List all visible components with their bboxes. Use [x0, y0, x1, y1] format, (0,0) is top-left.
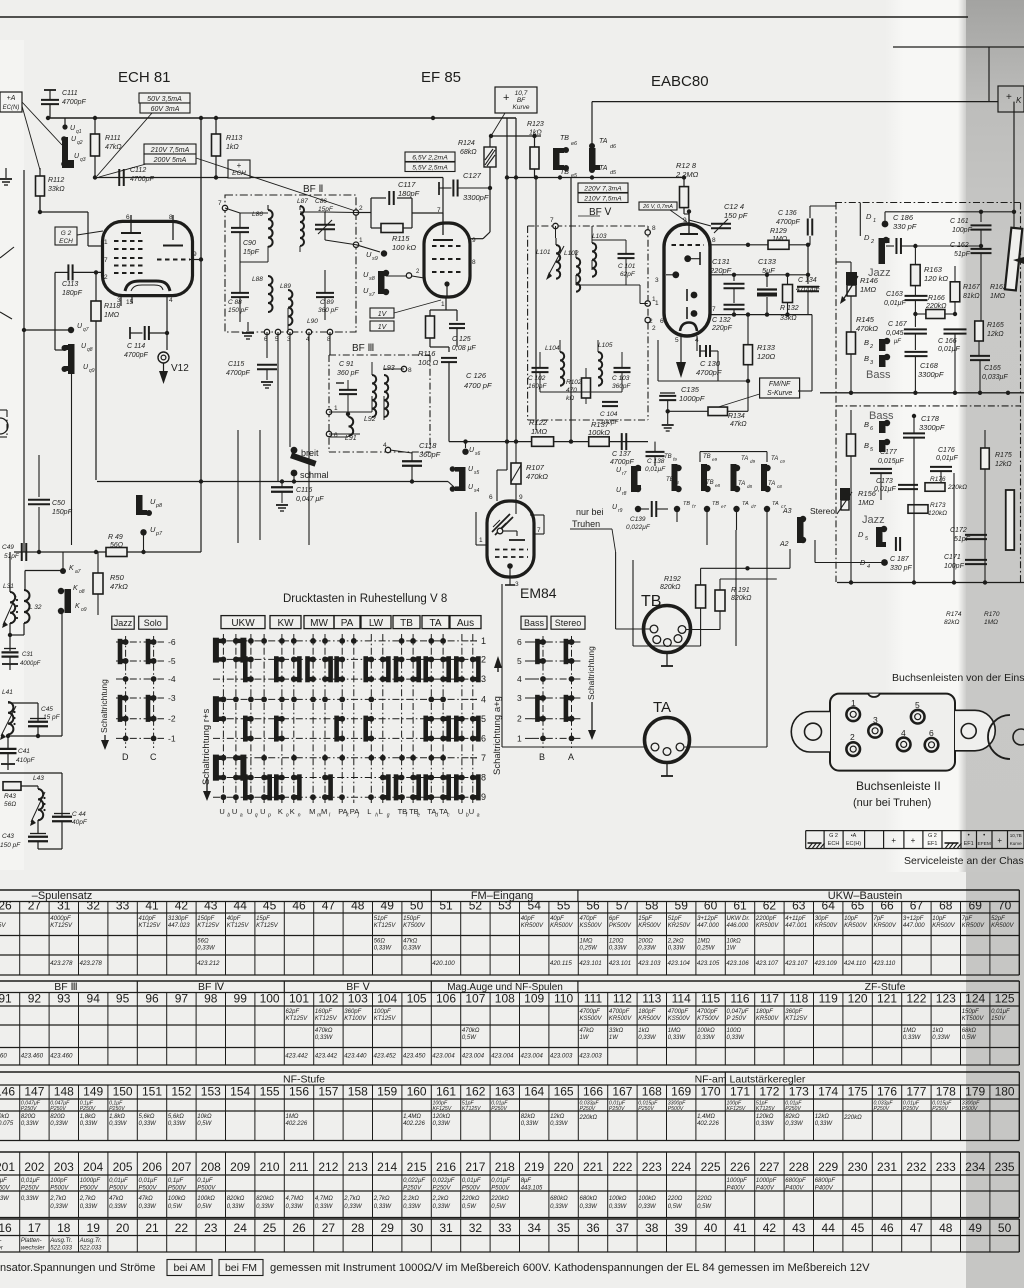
svg-text:8: 8 [652, 225, 656, 232]
wire grid line [95, 177, 228, 179]
svg-text:61: 61 [733, 899, 747, 913]
svg-text:L87: L87 [297, 198, 308, 205]
svg-text:Jazz: Jazz [114, 618, 133, 628]
svg-text:P250V: P250V [21, 1186, 40, 1192]
svg-text:TA: TA [742, 501, 749, 507]
svg-text:P250V: P250V [433, 1186, 452, 1192]
svg-text:n: n [298, 813, 301, 819]
contact TA c9 c8 [761, 464, 767, 491]
svg-text:LW: LW [369, 618, 384, 629]
svg-text:U: U [458, 807, 463, 816]
panel lower verticals [850, 456, 852, 583]
svg-text:s9: s9 [372, 256, 378, 262]
svg-text:C 134: C 134 [798, 277, 817, 284]
resistor R43 [3, 782, 21, 791]
svg-text:10,7B: 10,7B [1010, 833, 1022, 838]
svg-text:0,01μF: 0,01μF [645, 466, 666, 473]
capacitor C91 [339, 389, 357, 391]
table ZF-Spulensatz / FM-Eingang / UKW-Baustein values [0, 889, 1019, 891]
svg-text:R112: R112 [48, 177, 64, 184]
svg-text:o: o [286, 813, 289, 819]
svg-text:R176: R176 [930, 476, 946, 483]
svg-text:Drucktasten in Ruhestellung V: Drucktasten in Ruhestellung V 8 [283, 593, 447, 605]
svg-text:51: 51 [439, 899, 453, 913]
svg-text:KS500V: KS500V [580, 1016, 603, 1022]
svg-text:47kΩ: 47kΩ [403, 939, 418, 945]
svg-text:3: 3 [517, 693, 522, 703]
svg-text:c9: c9 [780, 459, 785, 464]
svg-text:0,33W: 0,33W [374, 946, 393, 952]
contact Ko8 Ko9 [65, 589, 72, 613]
svg-text:R111: R111 [105, 135, 121, 142]
svg-text:104: 104 [377, 992, 397, 1006]
svg-text:150: 150 [113, 1085, 133, 1099]
svg-text:5: 5 [481, 714, 486, 724]
svg-text:P500V: P500V [962, 1106, 978, 1112]
svg-text:100: 100 [260, 992, 280, 1006]
coil L91 [347, 414, 349, 417]
svg-text:6,5V 2,2mA: 6,5V 2,2mA [412, 154, 448, 161]
svg-text:37: 37 [616, 1221, 630, 1235]
svg-text:q3: q3 [80, 157, 86, 163]
svg-text:8: 8 [481, 773, 486, 783]
svg-text:82kΩ: 82kΩ [785, 1114, 800, 1120]
svg-text:Kurve: Kurve [1010, 841, 1022, 846]
svg-text:156: 156 [289, 1085, 309, 1099]
pot R156 [840, 488, 850, 500]
svg-text:65: 65 [851, 899, 865, 913]
svg-text:211: 211 [289, 1160, 308, 1174]
svg-text:53: 53 [498, 899, 512, 913]
table capacitor/resistor values 201-235 [0, 1151, 1019, 1153]
svg-text:120Ω: 120Ω [757, 352, 776, 361]
svg-text:C172: C172 [950, 527, 967, 534]
svg-text:C177: C177 [880, 449, 898, 456]
svg-text:0,33W: 0,33W [433, 1204, 452, 1210]
svg-text:29: 29 [381, 1221, 395, 1235]
svg-text:231: 231 [877, 1160, 897, 1174]
svg-text:4: 4 [383, 442, 387, 449]
svg-text:B: B [864, 338, 869, 347]
svg-text:TA: TA [429, 618, 441, 629]
svg-text:220Ω: 220Ω [667, 1196, 683, 1202]
svg-text:120Ω: 120Ω [609, 939, 624, 945]
svg-text:1kΩ: 1kΩ [529, 130, 542, 137]
svg-text:Jazz: Jazz [862, 514, 885, 526]
svg-text:TB: TB [560, 135, 569, 142]
svg-text:96: 96 [145, 992, 159, 1006]
svg-text:167: 167 [612, 1085, 632, 1099]
svg-text:0,33W: 0,33W [638, 1035, 657, 1041]
svg-text:6: 6 [929, 728, 934, 738]
node Uq7 [68, 327, 74, 333]
capacitor C166 [944, 328, 967, 330]
capacitor C176 [930, 466, 952, 468]
capacitor C133 electrolytic [766, 275, 768, 287]
resistor R122 [532, 437, 554, 447]
svg-text:C127: C127 [463, 171, 482, 180]
svg-text:51pF: 51pF [954, 251, 971, 258]
svg-text:Solo: Solo [144, 618, 162, 628]
node [46, 116, 50, 120]
trimmer C86 [315, 224, 335, 226]
capacitor C114 [129, 327, 131, 339]
svg-text:4700pF: 4700pF [124, 352, 148, 359]
svg-text:D: D [122, 752, 129, 762]
svg-text:0,01μF: 0,01μF [462, 1178, 481, 1184]
svg-text:680kΩ: 680kΩ [550, 1196, 568, 1202]
coil L103 [592, 243, 596, 277]
capacitor C162 [971, 248, 992, 250]
svg-text:18: 18 [57, 1221, 71, 1235]
node Up7 [140, 529, 146, 535]
svg-text:360pF: 360pF [419, 450, 441, 459]
svg-text:EC(N): EC(N) [3, 105, 20, 111]
svg-text:C111: C111 [62, 90, 78, 97]
svg-text:10kΩ: 10kΩ [197, 1114, 212, 1120]
svg-text:p7: p7 [155, 531, 163, 537]
svg-text:40pF: 40pF [227, 916, 241, 922]
svg-text:400.075: 400.075 [0, 1121, 14, 1127]
svg-text:159: 159 [377, 1085, 397, 1099]
svg-text:107: 107 [465, 992, 485, 1006]
capacitor C178 [903, 432, 925, 434]
BF II pin 1 [353, 242, 358, 247]
svg-text:TB: TB [666, 477, 674, 483]
svg-text:3+12pF: 3+12pF [903, 916, 924, 922]
ECH81 anode 2 [172, 215, 174, 240]
svg-text:C 161: C 161 [950, 218, 969, 225]
resistor R176 [925, 483, 945, 492]
EM84 pins [515, 501, 517, 514]
svg-text:48: 48 [939, 1221, 953, 1235]
svg-text:4: 4 [169, 297, 173, 304]
svg-text:f8: f8 [675, 480, 679, 485]
svg-text:423.101: 423.101 [579, 960, 601, 967]
svg-text:360pF: 360pF [612, 383, 631, 390]
EF85 pin1 cathode network [445, 297, 447, 310]
svg-text:169: 169 [671, 1085, 691, 1099]
svg-text:2,7kΩ: 2,7kΩ [343, 1196, 360, 1202]
svg-text:46: 46 [292, 899, 306, 913]
svg-text:162: 162 [465, 1085, 485, 1099]
svg-text:+: + [911, 836, 916, 845]
BF III pins [326, 409, 331, 414]
svg-text:d7: d7 [751, 504, 757, 509]
svg-text:D: D [866, 212, 872, 221]
svg-text:A3: A3 [782, 508, 792, 515]
svg-text:118: 118 [789, 992, 808, 1006]
wire EM84 pin1 [475, 512, 477, 545]
svg-text:38: 38 [645, 1221, 659, 1235]
contact row 2 dots [674, 506, 680, 512]
svg-text:C 125: C 125 [452, 336, 471, 343]
resistor R137 [589, 437, 610, 447]
svg-text:95: 95 [116, 992, 130, 1006]
wire to TA [502, 746, 644, 748]
ground top left [5, 168, 7, 178]
coil L93 [384, 375, 388, 417]
trimmer C124 [711, 223, 731, 225]
svg-text:233: 233 [936, 1160, 956, 1174]
svg-text:P400V: P400V [815, 1186, 834, 1192]
BF V wires lower [559, 340, 561, 352]
svg-text:0,33W: 0,33W [609, 946, 628, 952]
node D1 [884, 212, 886, 222]
tube EF85 [424, 223, 470, 297]
contact TB e6 e5 [553, 148, 560, 170]
svg-text:V12: V12 [171, 363, 189, 374]
svg-text:4700pF: 4700pF [62, 99, 86, 106]
svg-text:446.000: 446.000 [727, 923, 749, 929]
wire y773 [0, 772, 62, 774]
svg-text:e: e [417, 813, 420, 819]
svg-text:KR500V: KR500V [638, 923, 661, 929]
svg-text:1MΩ: 1MΩ [990, 293, 1006, 300]
wire under tube [658, 380, 748, 382]
svg-text:L92: L92 [364, 416, 376, 423]
svg-text:203: 203 [54, 1160, 74, 1174]
svg-text:47kΩ: 47kΩ [580, 1028, 595, 1034]
svg-text:1MΩ: 1MΩ [668, 1028, 681, 1034]
svg-text:45: 45 [263, 899, 277, 913]
svg-text:P400V: P400V [756, 1186, 775, 1192]
svg-text:423.442: 423.442 [285, 1053, 308, 1060]
connector TB DIN [644, 606, 691, 653]
svg-text:P400V: P400V [785, 1186, 804, 1192]
svg-text:158: 158 [348, 1085, 368, 1099]
svg-text:C 44: C 44 [72, 811, 86, 818]
svg-text:172: 172 [759, 1085, 779, 1099]
svg-text:KT100V: KT100V [344, 1016, 367, 1022]
svg-text:e9: e9 [712, 457, 718, 462]
resistor R145 [850, 296, 852, 332]
svg-text:C116: C116 [296, 487, 312, 494]
svg-text:43: 43 [792, 1221, 806, 1235]
svg-text:220Ω: 220Ω [696, 1196, 712, 1202]
svg-text:33kΩ: 33kΩ [48, 186, 65, 193]
svg-text:U: U [260, 807, 265, 816]
svg-text:8μF: 8μF [521, 1178, 532, 1184]
svg-text:0,33W: 0,33W [756, 1121, 775, 1127]
svg-text:0,33W: 0,33W [227, 1204, 246, 1210]
ECH81 grid dashes [114, 240, 146, 242]
svg-text:C133: C133 [758, 257, 777, 266]
svg-text:180pF: 180pF [398, 189, 420, 198]
svg-text:-3: -3 [168, 693, 176, 703]
svg-text:180: 180 [995, 1085, 1015, 1099]
svg-text:L86: L86 [252, 211, 263, 218]
BF II pin 7 [222, 205, 227, 210]
capacitor C90 [231, 227, 249, 229]
svg-text:R12 8: R12 8 [676, 161, 697, 170]
contact Ur7 Ur8 [631, 466, 638, 492]
wire EABC 314 [710, 314, 812, 316]
capacitor C44 [54, 813, 70, 815]
svg-text:12kΩ: 12kΩ [550, 1114, 565, 1120]
svg-text:-6: -6 [168, 637, 176, 647]
svg-text:Schaltrichtung r+s: Schaltrichtung r+s [201, 708, 212, 785]
svg-text:L31: L31 [3, 583, 14, 590]
resistor R132 [787, 275, 789, 285]
svg-text:210V 7,5mA: 210V 7,5mA [583, 195, 622, 202]
svg-text:0,01μF: 0,01μF [874, 486, 896, 493]
svg-text:45: 45 [851, 1221, 865, 1235]
svg-text:0,33W: 0,33W [697, 1035, 716, 1041]
capacitor C45 [8, 702, 38, 704]
coil L87 [300, 206, 304, 246]
svg-text:C90: C90 [243, 240, 256, 247]
svg-text:TB: TB [400, 618, 413, 629]
svg-text:226: 226 [730, 1160, 750, 1174]
svg-text:82kΩ: 82kΩ [944, 619, 959, 626]
svg-text:423.110: 423.110 [873, 960, 895, 967]
svg-text:R102: R102 [566, 379, 582, 386]
svg-text:4700 pF: 4700 pF [464, 381, 492, 390]
svg-text:EF 85: EF 85 [421, 69, 461, 86]
svg-text:P500V: P500V [462, 1186, 481, 1192]
svg-text:0,33W: 0,33W [815, 1121, 834, 1127]
bus y582 [837, 582, 1024, 584]
svg-text:153: 153 [201, 1085, 221, 1099]
svg-text:P250V: P250V [932, 1106, 948, 1112]
svg-text:223: 223 [642, 1160, 662, 1174]
svg-text:Jazz: Jazz [868, 267, 891, 279]
resistor R111 [94, 118, 96, 134]
svg-text:423.004: 423.004 [491, 1053, 514, 1060]
svg-text:P400V: P400V [727, 1186, 746, 1192]
EABC80 grid dash [672, 244, 705, 246]
resistor R175 [981, 448, 990, 469]
contact Uq2 Uq3 [62, 137, 68, 167]
svg-text:s5: s5 [474, 470, 480, 476]
svg-text:0,015μF: 0,015μF [878, 458, 904, 465]
svg-text:68: 68 [939, 899, 953, 913]
svg-text:220kΩ: 220kΩ [579, 1115, 598, 1121]
svg-text:4700pF: 4700pF [130, 176, 154, 183]
svg-text:12kΩ: 12kΩ [815, 1114, 830, 1120]
svg-text:KF125V: KF125V [727, 1106, 746, 1112]
svg-text:122: 122 [906, 992, 926, 1006]
svg-text:C 130: C 130 [700, 359, 721, 368]
svg-text:7: 7 [712, 306, 716, 313]
svg-text:410pF: 410pF [16, 757, 35, 764]
svg-text:TA: TA [599, 138, 608, 145]
coil core dots 2 [13, 711, 15, 713]
svg-text:breit: breit [301, 448, 319, 458]
svg-text:5: 5 [915, 700, 920, 710]
wire EF85 pin9 [470, 238, 483, 240]
svg-text:4,7MΩ: 4,7MΩ [286, 1196, 304, 1202]
svg-text:0,1μF: 0,1μF [197, 1178, 213, 1184]
svg-text:106: 106 [436, 992, 456, 1006]
svg-text:40pF: 40pF [521, 916, 535, 922]
svg-text:330 pF: 330 pF [890, 565, 913, 572]
wire y480 [97, 481, 448, 483]
Serviceleiste strip [806, 830, 1024, 832]
svg-text:Schaltrichtung: Schaltrichtung [99, 679, 109, 733]
svg-text:21: 21 [145, 1221, 159, 1235]
capacitor C49 [21, 543, 23, 561]
svg-text:ECH: ECH [59, 238, 73, 245]
svg-text:179: 179 [965, 1085, 985, 1099]
svg-text:7: 7 [218, 200, 222, 207]
svg-text:2: 2 [850, 732, 855, 742]
svg-text:C139: C139 [630, 516, 646, 523]
contact B5 [879, 440, 886, 452]
svg-text:423.003: 423.003 [579, 1053, 602, 1060]
svg-text:KT125V: KT125V [785, 1016, 808, 1022]
svg-text:p: p [267, 813, 271, 819]
svg-text:146: 146 [0, 1085, 15, 1099]
svg-text:2: 2 [869, 344, 873, 350]
svg-text:208: 208 [201, 1160, 221, 1174]
resistor R163 [914, 246, 916, 265]
svg-text:111: 111 [584, 992, 603, 1006]
svg-text:220kΩ: 220kΩ [925, 303, 947, 310]
svg-text:163: 163 [495, 1085, 515, 1099]
svg-text:4700pF: 4700pF [697, 1009, 718, 1015]
svg-text:47: 47 [322, 899, 336, 913]
svg-text:6: 6 [126, 214, 130, 221]
svg-text:f9: f9 [673, 457, 677, 462]
svg-text:3+12pF: 3+12pF [697, 916, 718, 922]
svg-text:TA: TA [772, 501, 779, 507]
resistor R128 [683, 178, 685, 187]
coil L102 [576, 258, 580, 292]
svg-text:KT500V: KT500V [697, 1016, 720, 1022]
svg-text:C173: C173 [876, 478, 893, 485]
svg-text:C12 4: C12 4 [724, 202, 744, 211]
svg-text:2,7kΩ: 2,7kΩ [49, 1196, 66, 1202]
svg-text:0,33W: 0,33W [109, 1121, 128, 1127]
svg-text:Aus: Aus [457, 618, 474, 629]
svg-text:4: 4 [901, 728, 906, 738]
svg-text:schmal: schmal [300, 470, 329, 480]
svg-text:d5: d5 [610, 170, 617, 176]
svg-text:TA: TA [741, 456, 748, 462]
svg-text:f7: f7 [692, 504, 696, 509]
svg-text:121: 121 [877, 992, 897, 1006]
contact D5 [876, 527, 883, 547]
svg-text:0,08 μF: 0,08 μF [452, 345, 476, 352]
svg-text:100 kΩ: 100 kΩ [392, 243, 416, 252]
svg-text:0,5W: 0,5W [197, 1204, 212, 1210]
resistor R115 [381, 224, 403, 233]
vertical pair wires [506, 118, 508, 470]
svg-text:L104: L104 [545, 345, 560, 352]
svg-text:174: 174 [818, 1085, 838, 1099]
svg-text:51pF: 51pF [954, 536, 971, 543]
svg-text:C 101: C 101 [618, 263, 636, 270]
svg-text:2: 2 [870, 239, 874, 245]
wire y177 right [507, 177, 684, 179]
svg-text:50: 50 [410, 899, 424, 913]
svg-text:0,5W: 0,5W [462, 1204, 477, 1210]
svg-text:P250V: P250V [50, 1106, 66, 1112]
svg-text:2,2kΩ: 2,2kΩ [667, 939, 684, 945]
svg-text:C 138: C 138 [647, 458, 665, 465]
svg-text:0,01μF: 0,01μF [21, 1178, 40, 1184]
wire EABC 244 [710, 244, 768, 246]
svg-text:B: B [864, 420, 869, 429]
svg-text:0,33W: 0,33W [21, 1121, 40, 1127]
capacitor C103 [614, 367, 631, 369]
svg-text:180pF: 180pF [62, 290, 83, 297]
svg-text:210: 210 [260, 1160, 280, 1174]
svg-text:234: 234 [965, 1160, 985, 1174]
svg-text:3300pF: 3300pF [919, 423, 945, 432]
